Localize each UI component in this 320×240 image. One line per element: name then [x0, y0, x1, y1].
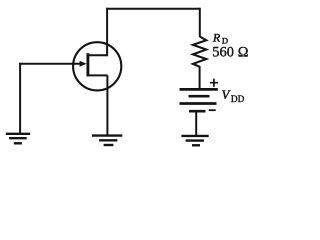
- wire: drain vertical from top rail into transistor: [106, 8, 108, 56]
- wire: gate horizontal: [19, 63, 81, 65]
- wire: battery bottom to ground: [195, 112, 197, 135]
- transistor Q1 (n-channel JFET): [73, 42, 121, 90]
- battery V1 minus sign: [209, 109, 216, 111]
- ground under source: [92, 136, 122, 145]
- wire: right rail down to resistor R1 top: [199, 8, 201, 37]
- wire: top rail from drain to resistor: [106, 8, 200, 10]
- battery V1 plus sign: [210, 79, 218, 87]
- ground at gate (left): [6, 134, 30, 144]
- resistor R1 zigzag: [193, 37, 206, 67]
- battery V1 plate 4 (short): [189, 110, 206, 113]
- svg-text:DD: DD: [231, 95, 245, 105]
- battery V1 plate 3 (long): [180, 102, 217, 105]
- battery V1 plate 2 (short): [189, 95, 210, 98]
- svg-text:560 Ω: 560 Ω: [212, 45, 248, 61]
- wire: left vertical down from gate: [19, 63, 21, 133]
- svg-text:V: V: [222, 88, 231, 102]
- svg-text:R: R: [212, 31, 221, 45]
- wire: resistor bottom to battery top: [199, 66, 201, 89]
- ground under battery: [181, 136, 208, 145]
- wire: source vertical down from transistor: [106, 75, 108, 135]
- battery V1 plate 1 (long): [180, 88, 218, 91]
